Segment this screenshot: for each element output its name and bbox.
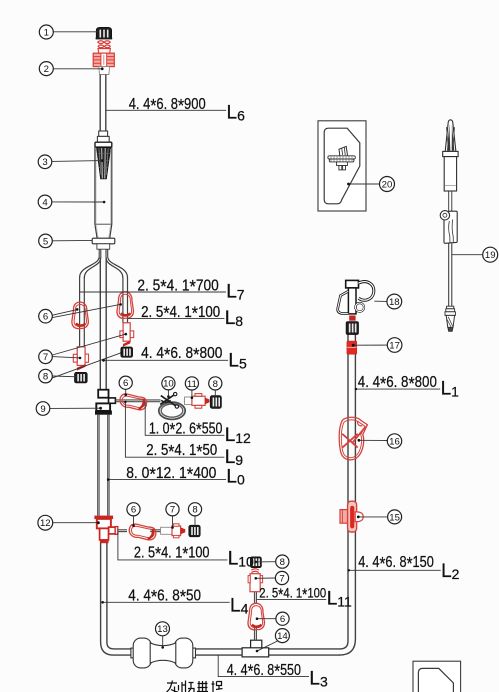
callout circle 4 [38, 195, 52, 209]
callout circle 8 (infusion branch) [188, 503, 201, 516]
leader circle 4 [52, 201, 104, 203]
svg-text:18: 18 [389, 297, 400, 308]
svg-text:7: 7 [43, 352, 48, 363]
callout circle 3 [38, 155, 52, 169]
leader circle 18 [374, 300, 387, 302]
slide clamp 6 on infusion branch (red) [129, 524, 156, 540]
luer connector 7 on right branch (red) [120, 323, 134, 347]
large clamp 16 (red) [339, 417, 367, 460]
callout circle 14 [275, 629, 289, 643]
callout circle 11 [185, 377, 198, 390]
T-connector 9 (black) [95, 390, 115, 415]
svg-text:20: 20 [382, 179, 393, 190]
right branch tube L8 (2.5*4.1*100) [123, 277, 128, 323]
tubing joint 17 (red band) [347, 341, 357, 354]
leader circle 8 to right cap [52, 353, 121, 378]
leader dot T14 [256, 650, 259, 653]
leader dot port 15 [357, 516, 360, 519]
leader circle 12 [53, 522, 98, 524]
dimension leader L0 [108, 479, 226, 481]
svg-text:4: 4 [42, 197, 48, 208]
leader dot joint 17 [352, 344, 355, 347]
svg-text:13: 13 [157, 624, 168, 635]
leader circle 19 [452, 254, 483, 256]
svg-text:3: 3 [42, 157, 47, 168]
protective cap 8 on monitor line (black) [210, 396, 221, 409]
main tube from chamber to T-connector 9 [100, 258, 106, 390]
leader dot right cap 8 [120, 352, 122, 354]
svg-text:11: 11 [187, 379, 197, 390]
roller clamp [444, 211, 457, 243]
svg-text:8: 8 [213, 379, 218, 390]
slide clamp 6 on monitor line (red, horizontal) [120, 394, 147, 410]
svg-text:4. 4*6. 8*800: 4. 4*6. 8*800 [358, 373, 437, 394]
callout circle 7 (infusion branch) [166, 503, 179, 516]
svg-text:8. 0*12. 1*400: 8. 0*12. 1*400 [126, 464, 217, 485]
leader dot L0 start [107, 478, 110, 481]
svg-text:8: 8 [43, 372, 48, 383]
svg-text:7: 7 [170, 505, 175, 516]
leader circle 14 [257, 641, 278, 651]
leader dot L4 start [101, 601, 104, 604]
luer threads of connector 2 [98, 41, 111, 48]
svg-text:4. 4*6. 8*50: 4. 4*6. 8*50 [128, 586, 201, 607]
svg-text:2. 5*4. 1*100: 2. 5*4. 1*100 [134, 543, 210, 564]
protective cap 8 on infusion branch (black) [189, 525, 200, 537]
pressure branch tube L11 (2.5*4.1*100) [255, 592, 257, 641]
tube upper [448, 191, 450, 211]
protective cap 8 on right branch (black) [121, 347, 133, 357]
main tube L0 (8.0*12.1*400) from T9 to T12 [98, 414, 109, 515]
svg-text:10: 10 [163, 379, 174, 390]
leader dot clamp 16 [358, 439, 361, 442]
leader dot T12 [97, 521, 100, 524]
callout circle 7 (left column) [39, 350, 53, 364]
dimension leader L6 [106, 109, 226, 111]
leader dot riser L9 [124, 401, 126, 403]
leader stem circle 7 infusion [172, 516, 174, 527]
leader dot L1 start [355, 388, 357, 390]
dimension leader L12 (riser + run) [145, 402, 224, 435]
svg-text:6: 6 [123, 378, 128, 389]
tube collar above drip chamber [97, 131, 109, 142]
svg-text:7: 7 [279, 573, 284, 584]
leader circle 6 pressure [257, 618, 276, 620]
callout circle 7 (pressure branch) [275, 571, 288, 584]
leader dot L2 start [348, 569, 350, 571]
svg-text:12: 12 [40, 518, 51, 529]
callout circle 8 (left column) [39, 369, 53, 383]
svg-text:16: 16 [389, 436, 400, 447]
drip chamber top ring [95, 142, 112, 147]
svg-text:2. 5*4. 1*50: 2. 5*4. 1*50 [146, 441, 217, 462]
leader stem circle 6 monitor [125, 389, 127, 394]
leader circle 3 [52, 160, 103, 163]
dimension leader L11 [257, 598, 327, 600]
leader stem circle 11 [191, 390, 193, 397]
dimension leader L5 [103, 359, 228, 361]
leader circle 7 to left connector [52, 357, 80, 358]
callout circle 19 [483, 247, 498, 262]
callout circle 1 [39, 25, 53, 39]
leader stem circle 8 monitor [214, 390, 216, 396]
leader dot clamp 6 infusion [132, 524, 135, 527]
drip chamber base ring 5 [92, 238, 115, 244]
tube L4 (4.4*6.8*50) below T12 with bottom-left bend [101, 543, 131, 655]
left branch tube L7 (2.5*4.1*700) [80, 277, 85, 347]
svg-text:14: 14 [277, 631, 288, 642]
dimension leader L10 (riser + run) [118, 533, 227, 560]
callout circle 18 [387, 294, 402, 309]
callout circle 6 (pressure branch) [276, 612, 289, 625]
callout circle 8 (monitor line) [209, 377, 222, 390]
leader dot left connector 7 [79, 357, 82, 360]
svg-text:6: 6 [280, 614, 285, 625]
leader circle 16 [359, 439, 388, 441]
svg-text:5: 5 [43, 236, 48, 247]
spike collar [443, 151, 458, 156]
leader circle 20 [348, 183, 379, 185]
svg-text:2: 2 [44, 64, 49, 75]
callout circle 6 (infusion branch) [127, 503, 140, 516]
dimension leader L7 [80, 291, 226, 293]
venous tube L1/L2 (right line) with bottom bend [339, 335, 356, 656]
slide clamp 6 on left branch (red) [72, 302, 88, 329]
svg-text:4. 4*6. 8*550: 4. 4*6. 8*550 [227, 660, 302, 681]
svg-text:4. 4*6. 8*150: 4. 4*6. 8*150 [358, 553, 434, 574]
leader circle 15 [358, 516, 388, 518]
svg-text:1. 0*2. 6*550: 1. 0*2. 6*550 [149, 419, 223, 440]
tube L6 (4.4*6.8*900) [100, 75, 106, 132]
callout circle 8 (pressure branch) [276, 555, 289, 568]
leader dot pouch 20 [347, 183, 350, 186]
leader dot clip 10 [167, 395, 170, 398]
leader stem circle 6 infusion [133, 516, 135, 525]
svg-text:2. 5*4. 1*100: 2. 5*4. 1*100 [141, 303, 220, 324]
drip chamber body 4 [95, 147, 112, 238]
leader dot in chamber [103, 201, 106, 204]
leader dot L5 start [102, 359, 105, 362]
callout circle 12 [38, 515, 53, 530]
dimension leader L9 (riser + run) [125, 402, 224, 457]
drip chamber outlet step [97, 244, 110, 249]
svg-text:4. 4*6. 8*800: 4. 4*6. 8*800 [141, 344, 223, 365]
leader dot on connector 2 [101, 67, 104, 70]
filter cone 3 (hatched) [97, 148, 111, 179]
spike body [444, 157, 456, 191]
svg-text:8: 8 [280, 557, 285, 568]
leader dot pump 13 [161, 646, 164, 649]
leader dot connector 7 pressure [255, 577, 258, 580]
leader circle 5 [52, 239, 92, 241]
leader circle 8 to left cap [52, 375, 77, 378]
dimension leader L8 [128, 318, 225, 320]
monitor line tube L9/L12 from T9 side port [115, 400, 186, 402]
svg-text:15: 15 [389, 512, 400, 523]
leader dot T9 [99, 407, 102, 410]
filter pouch box 20 [318, 121, 366, 211]
leader stem circle 10 [167, 390, 169, 396]
patient connector 18 with protective cap [338, 280, 374, 334]
luer connector 7 on pressure branch (red) [248, 569, 263, 592]
T-connector 12 (red) [95, 516, 118, 543]
svg-text:9: 9 [40, 404, 45, 415]
leader dot in filter cone [101, 159, 104, 162]
callout circle 6 (monitor line) [119, 376, 132, 389]
caption 动脉血路 (arterial blood line, clipped at bottom) [167, 681, 223, 692]
leader dot right connector 7 [125, 333, 128, 336]
callout circle 10 [162, 377, 175, 390]
leader dot right clamp [119, 303, 122, 306]
spike tip [445, 120, 456, 152]
end luer rings [447, 306, 454, 309]
leader circle 6 to right clamp [52, 305, 119, 318]
svg-text:19: 19 [485, 250, 496, 261]
callout circle 9 [36, 402, 50, 416]
svg-text:6: 6 [43, 312, 48, 323]
protective cap 8 on pressure branch (black) [250, 557, 261, 568]
leader circle 2 [53, 68, 102, 70]
infusion branch tube L10 from T12 [118, 530, 161, 532]
leader dot cap 8 pressure [255, 561, 258, 564]
leader circle 6 to left clamp [52, 310, 76, 315]
leader circle 13 [162, 636, 164, 648]
callout circle 13 [156, 622, 170, 636]
dimension leader L1 [356, 388, 441, 390]
spare pouch box (bottom right, clipped) [413, 661, 461, 692]
leader circle 7 to right connector [52, 334, 125, 355]
leader dot left clamp [76, 308, 79, 311]
female luer connector 2 (red) [93, 49, 114, 75]
svg-text:4. 4*6. 8*900: 4. 4*6. 8*900 [129, 95, 206, 116]
leader circle 17 [353, 344, 388, 346]
transducer protector icon (inside box 20) [328, 146, 355, 170]
svg-text:8: 8 [192, 505, 197, 516]
drip chamber outlet legs [99, 249, 108, 257]
callout circle 6 (left column) [39, 309, 53, 323]
svg-text:1: 1 [44, 27, 49, 38]
protective cap 8 on left branch (black) [75, 372, 88, 383]
leader dot clamp 6 pressure [256, 617, 259, 620]
slide clamp 6 on right branch (red) [117, 292, 133, 319]
svg-text:6: 6 [131, 505, 136, 516]
luer connector 11 (red/white) [185, 394, 210, 409]
callout circle 5 [39, 234, 53, 248]
leader dot connector 11 [191, 397, 194, 400]
cap 1 (protective cap on spike connector) [96, 27, 113, 39]
leader dot clamp 6 monitor [124, 393, 127, 396]
callout circle 17 [387, 338, 402, 353]
arterial tube L3 (4.4*6.8*550) after pump [196, 649, 340, 655]
callout circle 20 [380, 177, 395, 192]
callout circle 15 [388, 510, 402, 524]
callout circle 16 [387, 434, 401, 448]
leader stem circle 8 infusion [194, 516, 196, 526]
sampling spike set 19 (right side) [440, 120, 458, 332]
T-connector 14 (white) [242, 640, 269, 657]
injection port 15 (red) [340, 501, 363, 532]
luer connector 7 on left branch (red) [73, 347, 88, 371]
slide clamp 6 on pressure branch (red, vertical) [248, 603, 264, 630]
leader circle 8 pressure [256, 561, 276, 563]
tube lower [448, 243, 450, 306]
callout circle 2 [39, 62, 53, 76]
leader circle 7 pressure [256, 577, 276, 579]
dimension leader L4 [102, 601, 230, 603]
leader circle 9 [50, 407, 100, 409]
coiled monitor line 10 with clip [159, 392, 185, 419]
svg-text:2. 5*4. 1*700: 2. 5*4. 1*700 [137, 276, 219, 297]
arterial pump segment 13 [131, 638, 196, 668]
Y manifold flare below chamber [80, 257, 128, 278]
leader dot connector 7 infusion [171, 526, 174, 529]
leader circle 1 [53, 31, 99, 33]
dimension leader L2 [348, 569, 441, 571]
dimension leader L3 (riser + run) [218, 655, 309, 676]
svg-text:17: 17 [389, 340, 400, 351]
end cap [446, 315, 454, 327]
luer connector 7 on infusion branch (red/white) [161, 524, 186, 538]
